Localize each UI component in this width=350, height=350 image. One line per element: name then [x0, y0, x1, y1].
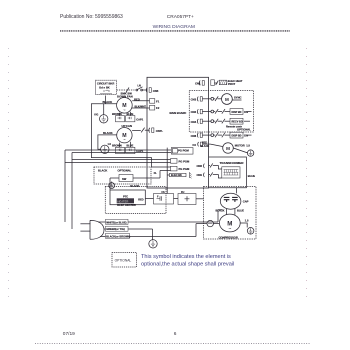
svg-text:1.5: 1.5	[245, 218, 249, 222]
svg-text:WHITE(or BLUE): WHITE(or BLUE)	[106, 220, 126, 224]
svg-text:ELEC HEATER: ELEC HEATER	[117, 203, 136, 207]
svg-text:Gd n BK: Gd n BK	[99, 85, 110, 89]
svg-text:OPTIONAL: OPTIONAL	[118, 169, 132, 173]
svg-text:HEATER: HEATER	[118, 199, 129, 203]
svg-text:CN8: CN8	[197, 164, 203, 168]
svg-text:PTC: PTC	[123, 195, 128, 199]
svg-text:BLACK: BLACK	[103, 131, 113, 135]
svg-text:MAIN BOARD: MAIN BOARD	[170, 111, 187, 115]
svg-text:CN3: CN3	[191, 98, 197, 102]
svg-text:BROWN: BROWN	[112, 145, 122, 148]
svg-text:DN: DN	[244, 134, 248, 138]
svg-text:BLK/WHT: BLK/WHT	[135, 105, 147, 108]
svg-text:RED: RED	[202, 142, 207, 145]
svg-text:FS: FS	[162, 191, 166, 194]
svg-text:MOTOR: MOTOR	[235, 143, 245, 147]
svg-text:M: M	[226, 146, 230, 151]
svg-text:SYNC: SYNC	[234, 96, 241, 100]
svg-text:BROWN: BROWN	[112, 113, 122, 116]
svg-text:CN9: CN9	[197, 173, 203, 177]
svg-text:PG PGM: PG PGM	[179, 159, 190, 163]
svg-text:BLACK: BLACK	[216, 208, 225, 212]
svg-text:F2: F2	[156, 106, 160, 110]
svg-text:WIRING DIAGRAM: WIRING DIAGRAM	[153, 24, 195, 30]
svg-text:M: M	[225, 97, 229, 102]
svg-text:CIRCUIT BKR: CIRCUIT BKR	[97, 82, 114, 86]
svg-text:RECV BD: RECV BD	[232, 121, 243, 124]
svg-text:GREEN(or Y/G): GREEN(or Y/G)	[106, 227, 125, 231]
svg-text:OPTIONAL: OPTIONAL	[237, 128, 251, 132]
svg-text:BLUE: BLUE	[248, 174, 255, 178]
svg-text:PG PGM: PG PGM	[179, 167, 190, 171]
svg-text:CN7L: CN7L	[156, 129, 164, 133]
svg-text:BLUE: BLUE	[237, 208, 244, 212]
svg-text:CN6: CN6	[191, 134, 197, 138]
svg-text:6: 6	[174, 331, 177, 337]
svg-text:DISP BD: DISP BD	[232, 135, 242, 138]
svg-text:BLUE: BLUE	[127, 113, 134, 116]
svg-text:CAP1: CAP1	[136, 149, 143, 153]
svg-text:1.5: 1.5	[246, 143, 250, 147]
svg-text:This symbol indicates the elem: This symbol indicates the element is	[141, 254, 231, 260]
svg-text:DISP BD: DISP BD	[232, 111, 242, 114]
svg-text:BLUE: BLUE	[127, 145, 134, 148]
svg-text:PROT: PROT	[228, 82, 236, 86]
svg-text:RED: RED	[134, 97, 140, 101]
svg-text:DOWN FAN: DOWN FAN	[117, 94, 133, 98]
svg-text:CN4: CN4	[191, 120, 197, 124]
svg-text:BLACK: BLACK	[130, 184, 139, 188]
svg-text:TRANSFORMER: TRANSFORMER	[220, 161, 245, 165]
svg-text:~: ~	[228, 227, 231, 233]
svg-text:CAP: CAP	[243, 200, 249, 204]
svg-text:ELEC BK: ELEC BK	[171, 174, 182, 177]
svg-text:Publication No: 5995559863: Publication No: 5995559863	[60, 14, 123, 20]
svg-text:F3: F3	[193, 143, 197, 147]
svg-text:LN: LN	[138, 85, 142, 88]
svg-text:Y/G: Y/G	[94, 114, 98, 117]
svg-text:07/19: 07/19	[63, 331, 75, 337]
svg-text:F1: F1	[156, 99, 160, 103]
svg-text:CAP1: CAP1	[136, 117, 143, 121]
svg-text:FU: FU	[181, 191, 185, 194]
svg-text:BLACK(or BROWN): BLACK(or BROWN)	[106, 234, 130, 238]
svg-text:F: F	[157, 196, 159, 199]
svg-text:BLACK: BLACK	[201, 145, 210, 148]
svg-text:FL: FL	[154, 172, 158, 175]
svg-text:1.5: 1.5	[108, 143, 112, 146]
svg-text:CN2: CN2	[191, 110, 197, 114]
svg-text:optional,the actual shape shal: optional,the actual shape shall prevail	[141, 261, 234, 267]
svg-text:UP FAN: UP FAN	[122, 124, 133, 128]
svg-text:CN1: CN1	[195, 81, 201, 85]
svg-text:CN5: CN5	[153, 89, 159, 93]
svg-text:DN: DN	[244, 110, 248, 114]
svg-text:PG PGM: PG PGM	[178, 148, 189, 152]
svg-text:BLACK: BLACK	[103, 100, 113, 104]
svg-text:BLACK: BLACK	[98, 169, 107, 173]
svg-text:SW: SW	[122, 177, 127, 181]
svg-text:OPTIONAL: OPTIONAL	[115, 258, 132, 262]
svg-text:COMPRESSOR: COMPRESSOR	[219, 235, 238, 239]
svg-text:CRA057PT+: CRA057PT+	[167, 14, 194, 20]
svg-text:RED: RED	[138, 198, 143, 201]
